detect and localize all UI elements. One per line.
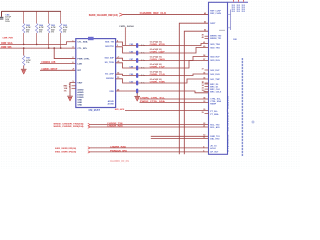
svg-text:CHDDR_RX8: CHDDR_RX8 [107,126,123,128]
svg-text:8: 8 [203,146,204,148]
svg-text:CMR_SGA: CMR_SGA [1,42,13,45]
svg-text:SDD_RLN: SDD_RLN [210,60,220,62]
svg-text:1%: 1% [51,32,54,34]
svg-text:BRWN_TX1: BRWN_TX1 [210,38,222,40]
svg-text:NX5T: NX5T [210,23,216,25]
svg-text:33: 33 [203,101,205,103]
svg-text:CHDRL_TX8N: CHDRL_TX8N [150,82,166,84]
svg-text:SD2_44P: SD2_44P [105,57,115,60]
svg-text:SG_AXP: SG_AXP [105,73,114,76]
svg-text:1%: 1% [63,32,66,34]
svg-text:11: 11 [203,137,205,139]
svg-text:21: 21 [203,126,205,128]
svg-text:CMR_P0R: CMR_P0R [2,37,13,39]
svg-text:CHDRL_CADP: CHDRL_CADP [150,51,166,54]
svg-text:58: 58 [203,55,205,57]
svg-text:3V3: 3V3 [232,11,235,13]
svg-text:1%: 1% [39,32,42,34]
svg-text:SHDD_CHDRR_RXD(1/4): SHDD_CHDRR_RXD(1/4) [55,147,76,150]
svg-text:6: 6 [203,150,204,152]
svg-text:1%: 1% [64,90,67,92]
svg-text:SG2_RLN: SG2_RLN [210,74,220,76]
svg-text:CHDRL_8TDN: CHDRL_8TDN [150,44,166,46]
svg-text:43: 43 [204,21,206,24]
svg-text:30: 30 [203,109,205,111]
svg-text:SDSTTK: SDSTTK [105,46,114,48]
svg-text:SW3DK: SW3DK [106,78,114,80]
svg-text:CTL_SDA: CTL_SDA [77,41,88,44]
svg-text:SHDD_CHDRR_SPD(1/4): SHDD_CHDRR_SPD(1/4) [55,150,76,153]
svg-text:GND: GND [77,105,82,107]
svg-text:SDD_TW0: SDD_TW0 [210,44,220,46]
svg-text:SG2_RLP: SG2_RLP [210,70,220,72]
svg-text:CHDRL_1TLN: CHDRL_1TLN [150,74,166,76]
svg-text:45: 45 [204,12,206,15]
svg-text:AF_OUT: AF_OUT [210,151,219,154]
svg-text:3V3: 3V3 [237,11,240,13]
svg-text:CMR_SPL: CMR_SPL [1,47,13,49]
svg-text:CHDRL_CADN: CHDRL_CADN [150,58,166,61]
svg-text:36: 36 [203,72,205,74]
svg-text:CHARRK_RF_8%: CHARRK_RF_8% [110,160,129,163]
svg-text:CTL_SPL: CTL_SPL [77,48,87,50]
svg-text:SDD_TW1: SDD_TW1 [210,48,220,50]
svg-text:37: 37 [202,69,204,71]
svg-text:PT_SMA: PT_SMA [210,113,219,116]
svg-text:38: 38 [203,91,205,93]
svg-text:SHDD_CHDDR_TX8(1/4): SHDD_CHDDR_TX8(1/4) [53,122,83,125]
svg-text:41: 41 [203,41,205,44]
svg-text:3V3: 3V3 [242,11,245,13]
svg-text:ADUD: ADUD [108,100,115,103]
svg-text:15: 15 [202,82,204,84]
svg-text:SM83_12YUHD_CONN4: SM83_12YUHD_CONN4 [226,96,229,154]
svg-text:42: 42 [204,29,206,32]
svg-text:PWR_CTRL: PWR_CTRL [77,58,90,60]
svg-text:SHDD_CHDDR_RX8(1/4): SHDD_CHDDR_RX8(1/4) [53,125,83,128]
svg-text:35: 35 [203,77,205,79]
svg-text:34: 34 [202,84,204,87]
svg-text:1%: 1% [26,62,29,64]
svg-text:PWRD&R_SPD: PWRD&R_SPD [110,150,127,152]
svg-text:DBL_RX0: DBL_RX0 [210,138,220,140]
svg-text:CHARRK_REF_CLK: CHARRK_REF_CLK [140,12,167,15]
svg-text:SHDD_CHAGRR_REF(1/4): SHDD_CHAGRR_REF(1/4) [89,14,118,17]
svg-text:7: 7 [69,87,70,89]
svg-text:CM_M-BT: CM_M-BT [89,109,101,112]
svg-text:ACLK: ACLK [210,147,216,150]
svg-text:SDD_RLP: SDD_RLP [210,56,220,58]
svg-text:CHDRL_1TLP: CHDRL_1TLP [150,67,166,69]
svg-text:DNI: DNI [233,39,237,41]
svg-text:AUD_JACK: AUD_JACK [115,108,125,111]
svg-text:57: 57 [203,59,205,61]
svg-text:SD_TDW: SD_TDW [105,62,115,64]
svg-text:VDD: VDD [109,91,114,93]
svg-text:CHDRR_RXD: CHDRR_RXD [110,146,126,148]
svg-text:REF_CLKN: REF_CLKN [210,13,221,15]
svg-text:48: 48 [202,36,204,39]
svg-text:REMP: REMP [210,104,216,106]
svg-text:1%: 1% [26,32,29,34]
svg-text:CMPL_SGNH: CMPL_SGNH [119,26,134,28]
svg-text:LDB: LDB [77,63,82,65]
svg-text:MCL_AX0: MCL_AX0 [210,126,220,129]
svg-text:VKIT: VKIT [77,82,83,84]
svg-text:40: 40 [203,45,205,48]
svg-text:CTRL_SDA: CTRL_SDA [210,100,221,103]
svg-text:SG1_TWP: SG1_TWP [210,79,220,81]
svg-text:AGND: AGND [107,103,114,106]
svg-text:29: 29 [202,112,204,114]
svg-text:BRC_CDLX: BRC_CDLX [210,92,222,94]
svg-text:PT_SLL: PT_SLL [210,111,218,113]
svg-text:SD8_TW: SD8_TW [105,42,115,44]
svg-text:10%: 10% [5,21,9,23]
